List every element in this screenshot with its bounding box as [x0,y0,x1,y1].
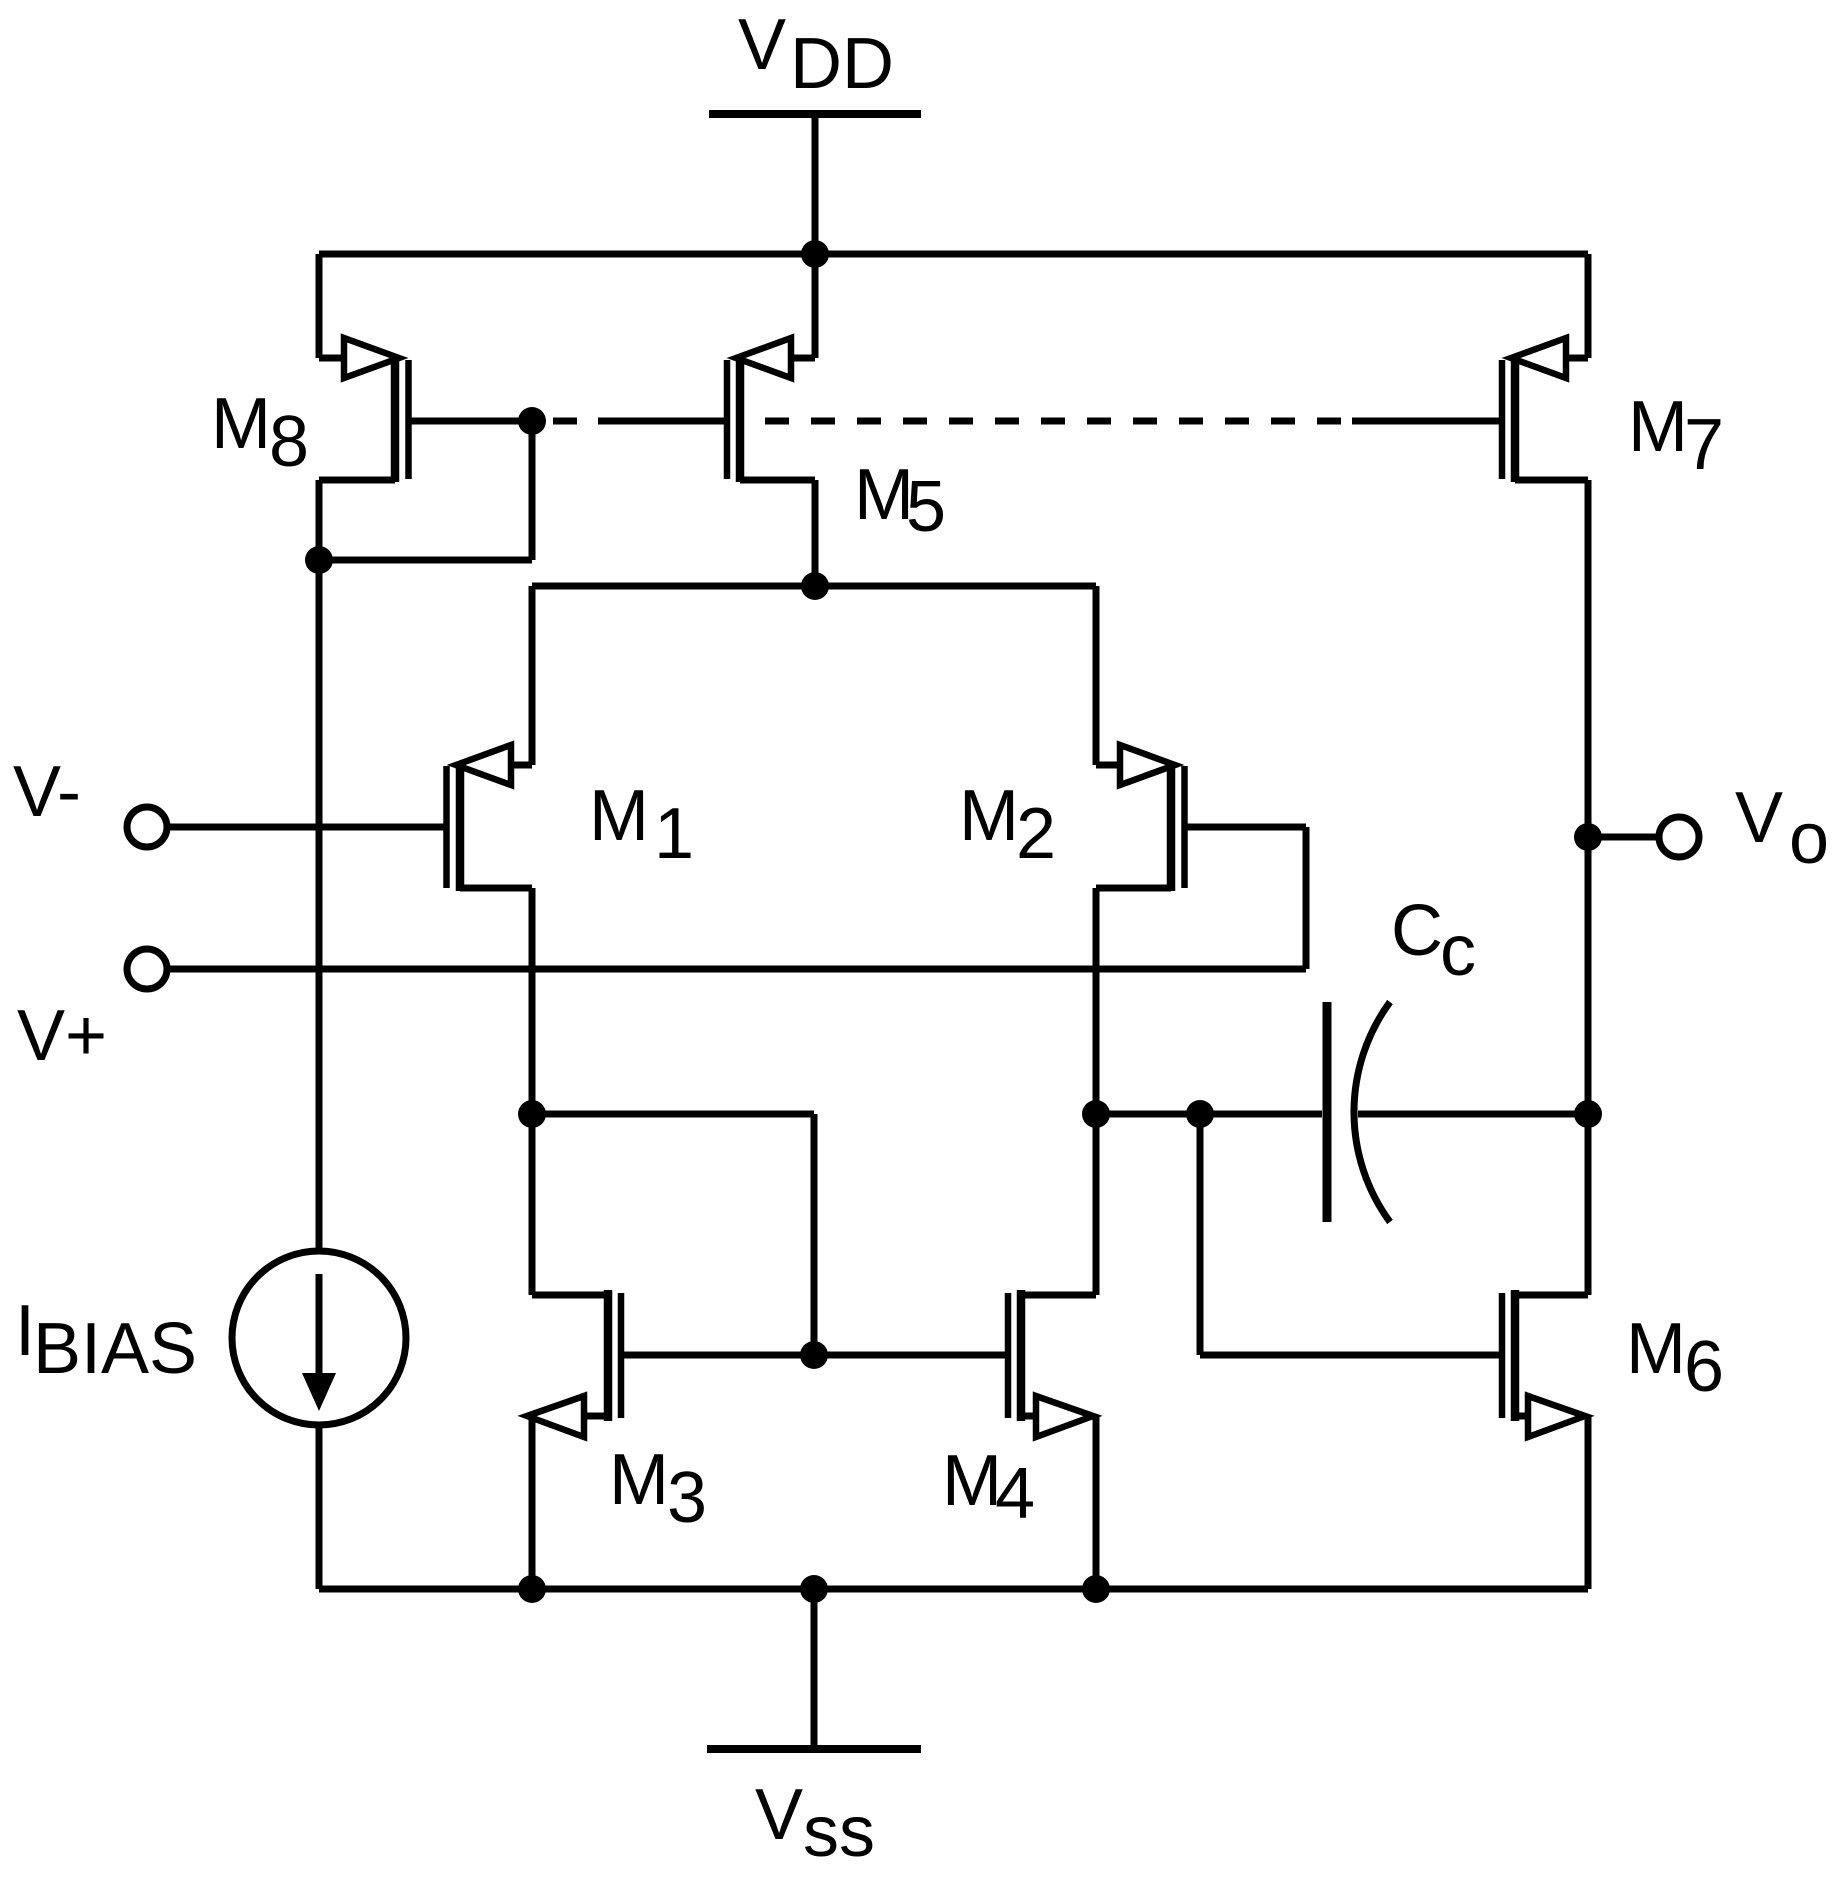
svg-text:M: M [1628,387,1688,467]
svg-text:o: o [1789,799,1829,879]
svg-text:M: M [609,1440,669,1520]
svg-text:V+: V+ [17,996,107,1076]
svg-text:V-: V- [13,752,81,832]
svg-text:M: M [854,455,914,535]
svg-text:V: V [1735,778,1783,858]
svg-text:8: 8 [269,402,309,482]
svg-text:M: M [959,776,1019,856]
svg-text:4: 4 [995,1454,1035,1534]
svg-text:M: M [589,776,649,856]
svg-text:V: V [738,5,786,85]
svg-text:c: c [1440,911,1476,991]
svg-text:C: C [1391,891,1443,971]
svg-text:6: 6 [1684,1327,1724,1407]
svg-text:1: 1 [654,794,694,874]
svg-text:I: I [15,1291,35,1371]
svg-text:BIAS: BIAS [33,1309,197,1389]
svg-text:DD: DD [790,24,894,104]
svg-text:2: 2 [1016,794,1056,874]
svg-text:M: M [1626,1309,1686,1389]
svg-text:7: 7 [1684,405,1724,485]
svg-text:ss: ss [803,1792,875,1872]
svg-text:V: V [755,1775,803,1855]
svg-text:5: 5 [906,467,946,547]
svg-text:M: M [211,384,271,464]
svg-text:3: 3 [667,1458,707,1538]
svg-text:M: M [942,1441,1002,1521]
